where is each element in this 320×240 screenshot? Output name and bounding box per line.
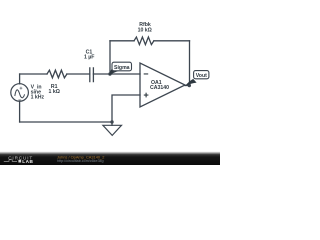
wire source top to main rail — [19, 74, 21, 84]
node junction dot Sigma — [108, 72, 111, 75]
node flag Vout pointer — [185, 79, 197, 86]
node flag Sigma pointer — [109, 67, 120, 76]
wire Rfbk to right corner — [154, 40, 190, 42]
svg-text:http://circuitlab.com/c6ke3kg: http://circuitlab.com/c6ke3kg — [57, 159, 104, 163]
footer bar — [0, 152, 220, 165]
voltage source minus mark — [18, 99, 21, 102]
voltage source sine glyph — [15, 90, 25, 98]
op-amp minus input mark — [144, 73, 149, 74]
capacitor C1 — [90, 68, 94, 82]
svg-text:Sigma: Sigma — [114, 65, 130, 71]
svg-text:1 kΩ: 1 kΩ — [49, 89, 60, 95]
node junction dot output — [188, 84, 191, 87]
resistor R1 — [47, 70, 67, 78]
wire feedback top left to Rfbk — [110, 40, 134, 42]
ground symbol — [103, 125, 122, 135]
ground stem — [111, 122, 113, 125]
svg-text:Vout: Vout — [196, 73, 207, 79]
svg-text:CA3140: CA3140 — [150, 85, 169, 91]
footer logo waveform — [4, 160, 17, 162]
wire source bottom — [19, 101, 21, 122]
op-amp OA1 triangle — [140, 63, 185, 107]
wire R1 to C1 — [67, 73, 90, 75]
svg-text:LAB: LAB — [22, 159, 33, 164]
op-amp plus input mark — [144, 95, 149, 96]
svg-text:10 kΩ: 10 kΩ — [138, 28, 152, 34]
node flag Vout box — [194, 71, 209, 79]
wire feedback vertical from node Sigma — [109, 41, 111, 74]
wire non-inverting input — [112, 95, 140, 122]
wire bottom rail — [20, 121, 112, 123]
node junction dot ground rail — [110, 120, 113, 123]
footer logo block mark — [18, 160, 21, 163]
resistor Rfbk — [134, 37, 154, 45]
svg-text:1 kHz: 1 kHz — [31, 95, 45, 101]
node flag Sigma box — [112, 62, 132, 71]
voltage source V_in circle — [11, 84, 29, 102]
svg-text:1 µF: 1 µF — [84, 55, 94, 61]
wire main rail to R1 — [20, 73, 47, 75]
wire C1 to op-amp inverting input (node Sigma) — [93, 73, 140, 75]
wire feedback down to output node — [189, 41, 191, 86]
wire op-amp output pin — [185, 85, 190, 87]
voltage source plus mark — [20, 87, 23, 90]
